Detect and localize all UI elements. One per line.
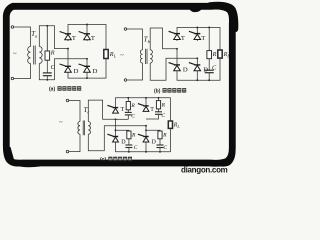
- wire T snubber left branch (c): [127, 98, 129, 102]
- svg-text:RL: RL: [173, 123, 181, 130]
- wire D snubber right bottom (c): [159, 148, 161, 152]
- transformer Tc secondary winding: [88, 122, 90, 135]
- wire primary top (b): [127, 29, 143, 50]
- svg-text:diangon.com: diangon.com: [181, 166, 228, 175]
- transformer Tb core: [146, 49, 147, 64]
- svg-text:C: C: [161, 113, 165, 119]
- wire secondary bottom (c): [88, 126, 146, 151]
- wire T snubber right RC (c): [158, 109, 160, 112]
- wire left column mid (a): [67, 49, 69, 67]
- junction bottom rail right column (c): [145, 151, 147, 153]
- wire primary top (a): [14, 27, 31, 47]
- junction C bottom (a): [46, 79, 48, 81]
- svg-text:~: ~: [13, 51, 17, 58]
- wire D snubber left bottom (c): [128, 148, 130, 152]
- terminal J2c bottom (c): [66, 150, 69, 153]
- capacitor C snubber (a): [43, 73, 52, 76]
- wire primary bottom (b): [127, 63, 143, 80]
- svg-text:T: T: [91, 35, 95, 42]
- wire top rail DC+ (a): [68, 25, 106, 50]
- svg-text:(a): (a): [49, 87, 55, 93]
- transformer Tb primary winding: [140, 50, 142, 63]
- wire C to bottom rail (b): [208, 73, 210, 81]
- svg-text:T: T: [181, 35, 185, 42]
- wire left column mid (c): [115, 119, 117, 136]
- junction RC tap top (a): [46, 25, 48, 27]
- wire D snubber left RC (c): [128, 139, 130, 145]
- frame top-right blob: [210, 5, 235, 29]
- svg-text:C: C: [163, 145, 167, 151]
- wire R branch top (b): [208, 28, 210, 51]
- transformer Ta core: [34, 46, 36, 65]
- wire bottom rail DC- (b): [177, 58, 220, 80]
- wire top rail DC+ (b): [177, 28, 220, 51]
- wire T snubber left join (c): [116, 118, 129, 120]
- junction right column snubber tap (c): [145, 129, 147, 131]
- transformer Ta primary winding: [28, 47, 31, 64]
- load resistor RL (b): [218, 50, 222, 58]
- frame border: [6, 6, 232, 163]
- wire secondary top (a): [39, 26, 68, 49]
- svg-text:T: T: [121, 107, 125, 113]
- junction AC node right column (c): [145, 125, 147, 127]
- svg-text:C: C: [131, 113, 135, 119]
- wire right column bottom (c): [145, 142, 147, 152]
- capacitor C snubber T right (c): [155, 112, 162, 115]
- junction AC node left column (a): [67, 48, 69, 50]
- junction left column snubber tap (c): [115, 129, 117, 131]
- junction top rail right column (b): [196, 27, 198, 29]
- svg-text:R: R: [162, 133, 167, 139]
- diode D2 (b): [189, 63, 201, 71]
- wire primary bottom (a): [14, 64, 31, 79]
- wire bottom rail DC- (a): [68, 59, 106, 79]
- junction top rail right column (c): [145, 97, 147, 99]
- wire C to bottom (a): [46, 76, 48, 80]
- frame bottom-right blob: [218, 149, 236, 167]
- diode D1 (b): [169, 63, 181, 71]
- transformer Tc core: [83, 121, 84, 136]
- wire T snubber right branch (c): [158, 98, 160, 101]
- capacitor C snubber (b): [205, 70, 214, 73]
- wire primary bottom (c): [69, 134, 80, 151]
- thyristor T1 (b): [169, 31, 181, 39]
- diode D2 (a): [79, 64, 91, 72]
- transformer Tb secondary winding: [150, 50, 152, 63]
- wire T snubber right bottom (c): [146, 114, 159, 119]
- wire bottom rail DC- (c): [116, 128, 171, 151]
- wire right column mid (b): [196, 58, 198, 65]
- wire RC branch (a): [46, 26, 48, 51]
- svg-text:D: D: [183, 67, 188, 74]
- junction D snubber left bottom (c): [128, 151, 130, 153]
- wire primary top (c): [69, 101, 80, 122]
- junction AC node right column (b): [196, 57, 198, 59]
- wire right column mid (c): [145, 126, 147, 137]
- wire right column top (a): [86, 25, 88, 42]
- thyristor T1 (a): [60, 32, 72, 40]
- svg-text:T: T: [150, 107, 154, 113]
- junction top rail left snubber (c): [127, 97, 129, 99]
- caption (b): [154, 88, 186, 95]
- resistor R snubber D left (c): [127, 131, 131, 139]
- wire secondary top (c): [88, 100, 115, 121]
- wire right column bottom (a): [86, 72, 88, 78]
- wire right column top (b): [196, 28, 198, 42]
- wire secondary bottom (a): [39, 59, 87, 80]
- wire top rail DC+ (c): [116, 98, 171, 121]
- junction top rail right column (a): [86, 24, 88, 26]
- junction bottom rail right column (b): [196, 79, 198, 81]
- terminal J1a top (a): [11, 26, 14, 29]
- capacitor C snubber D right (c): [157, 145, 164, 148]
- thyristor T4 (c): [138, 104, 149, 112]
- svg-text:D: D: [74, 68, 79, 75]
- diode D3 (c): [107, 134, 118, 142]
- wire R to C (b): [208, 59, 210, 70]
- wire T snubber left bottom (c): [127, 115, 129, 119]
- svg-text:(b): (b): [154, 89, 161, 95]
- frame bottom-left blob: [5, 147, 40, 167]
- load resistor RL (c): [168, 121, 172, 128]
- caption (c): [100, 157, 132, 164]
- thyristor T2 (b): [189, 31, 201, 39]
- svg-text:R: R: [130, 103, 135, 109]
- wire secondary top (b): [150, 28, 177, 50]
- caption (a): [49, 86, 81, 93]
- thyristor T2 (a): [79, 32, 91, 40]
- svg-text:C: C: [134, 145, 138, 151]
- svg-text:~: ~: [59, 119, 63, 126]
- wire right column bottom (b): [196, 71, 198, 80]
- terminal J2a bottom (a): [11, 77, 14, 80]
- resistor R snubber (b): [207, 51, 212, 59]
- junction AC node right column (a): [86, 58, 88, 60]
- terminal J1b top (b): [124, 28, 127, 31]
- wire D snubber right top (c): [146, 129, 160, 132]
- junction AC node left column (c): [115, 118, 117, 120]
- transformer Ta secondary winding: [39, 47, 42, 64]
- junction AC node left column (b): [176, 48, 178, 50]
- wire D snubber left top (c): [116, 129, 129, 132]
- resistor R snubber T right (c): [156, 101, 160, 109]
- junction D snubber right bottom (c): [159, 151, 161, 153]
- transformer Tc primary winding: [78, 122, 80, 135]
- capacitor C snubber D left (c): [125, 145, 132, 148]
- wire secondary bottom (b): [150, 58, 197, 80]
- wire right column mid (a): [86, 59, 88, 67]
- load resistor RL (a): [104, 50, 108, 59]
- resistor R snubber (a): [45, 51, 50, 60]
- diode D4 (c): [138, 134, 149, 142]
- wire right column top (c): [145, 98, 147, 112]
- svg-text:R: R: [131, 133, 136, 139]
- resistor R snubber T left (c): [126, 102, 130, 110]
- svg-text:D: D: [121, 139, 126, 145]
- svg-text:T: T: [201, 35, 205, 42]
- wire R to C (a): [46, 60, 48, 72]
- resistor R snubber D right (c): [158, 131, 162, 139]
- junction bottom rail right column (a): [86, 77, 88, 79]
- wire T snubber left RC (c): [127, 110, 129, 112]
- svg-text:D: D: [152, 139, 157, 145]
- svg-text:~: ~: [120, 52, 124, 59]
- wire D snubber right RC (c): [159, 139, 161, 145]
- junction top rail R branch (b): [208, 27, 210, 29]
- wire left column mid (b): [176, 49, 178, 65]
- terminal J2b bottom (b): [124, 79, 127, 82]
- diode D1 (a): [60, 64, 72, 72]
- terminal J1c top (c): [66, 99, 69, 102]
- svg-text:R: R: [212, 51, 217, 58]
- svg-text:D: D: [93, 68, 98, 75]
- svg-text:(c): (c): [100, 157, 106, 163]
- svg-text:T: T: [72, 35, 76, 42]
- junction top rail right snubber (c): [158, 97, 160, 99]
- frame top bump: [188, 4, 202, 12]
- svg-text:R: R: [50, 50, 55, 57]
- junction C bottom (b): [208, 79, 210, 81]
- thyristor T3 (c): [107, 105, 118, 113]
- svg-text:R: R: [161, 102, 166, 108]
- capacitor C snubber T left (c): [125, 112, 132, 115]
